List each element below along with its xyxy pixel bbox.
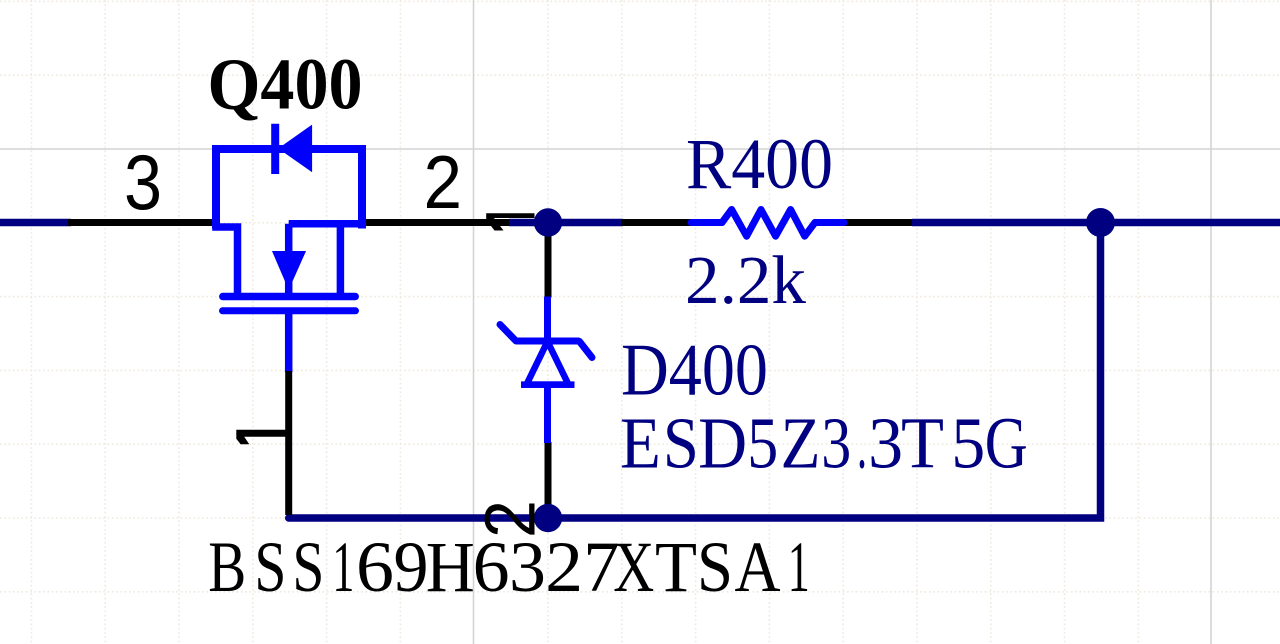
svg-text:1: 1	[788, 527, 810, 607]
svg-text:6: 6	[473, 527, 510, 607]
anode triangle outline	[527, 342, 569, 385]
svg-text:.: .	[857, 403, 867, 484]
diode D400 pin 1 wire	[545, 223, 552, 298]
svg-text:T: T	[655, 527, 697, 607]
svg-text:9: 9	[394, 527, 429, 607]
svg-text:D400: D400	[621, 330, 768, 412]
pin 1 wire of Q400 (gate)	[285, 371, 292, 515]
gate lead	[285, 313, 293, 372]
svg-text:G: G	[985, 403, 1028, 484]
zigzag	[722, 210, 815, 237]
transistor Q400 (depletion MOSFET with body diode)	[216, 124, 362, 372]
junction node dot (R400/D400 top)	[534, 208, 562, 236]
svg-text:S: S	[663, 403, 699, 484]
body diode cathode bar	[271, 124, 279, 174]
top lead	[544, 297, 551, 340]
body diode triangle	[280, 127, 311, 171]
svg-text:X: X	[613, 527, 654, 607]
left lead	[691, 219, 722, 226]
svg-text:Q400: Q400	[208, 43, 363, 124]
wire right vertical branch and bottom horizontal	[289, 223, 1101, 519]
svg-text:6: 6	[356, 527, 394, 607]
svg-text:A: A	[735, 527, 781, 607]
left wing	[500, 325, 516, 342]
source jog	[216, 223, 238, 297]
wire net middle horizontal	[509, 219, 623, 227]
pin 3 wire of Q400	[68, 219, 214, 226]
bottom lead	[544, 385, 551, 443]
body diode loop	[216, 149, 362, 229]
svg-text:3: 3	[124, 140, 162, 226]
svg-text:5: 5	[951, 403, 985, 484]
svg-text:2: 2	[545, 527, 583, 607]
svg-text:T: T	[901, 403, 944, 484]
junction node dot (D400 bottom)	[534, 504, 562, 532]
svg-text:H: H	[426, 527, 475, 607]
resistor R400 symbol	[691, 210, 844, 237]
svg-text:2: 2	[424, 140, 463, 224]
triangle base bar	[521, 381, 575, 388]
svg-text:3: 3	[868, 403, 903, 484]
svg-text:S: S	[697, 527, 733, 607]
channel bar	[223, 293, 355, 301]
right vertical	[337, 224, 345, 297]
wire net left horizontal	[0, 219, 71, 227]
pin number 1 of D400 (rotated)	[486, 213, 534, 230]
zener diode D400 symbol	[500, 297, 592, 444]
svg-text:S: S	[254, 527, 286, 607]
pin number 1 (gate, rotated)	[236, 430, 286, 445]
svg-text:S: S	[292, 527, 324, 607]
svg-text:5: 5	[747, 403, 778, 484]
drain vertical with arrow	[285, 224, 293, 297]
resistor R400 pin 2 wire	[843, 219, 914, 226]
junction node dot (right branch)	[1086, 208, 1115, 237]
svg-text:1: 1	[332, 527, 354, 607]
cathode bar	[516, 338, 580, 345]
svg-text:3: 3	[509, 527, 546, 607]
svg-text:2: 2	[472, 500, 551, 538]
wire net right horizontal	[912, 219, 1280, 227]
drain-level horizontal	[289, 220, 362, 228]
svg-text:B: B	[208, 527, 246, 607]
diode D400 pin 2 wire	[545, 442, 552, 518]
pin 2 wire of Q400	[361, 219, 511, 226]
right lead	[815, 219, 844, 226]
svg-text:D: D	[698, 403, 747, 484]
svg-text:2.2k: 2.2k	[685, 242, 807, 318]
svg-text:R400: R400	[686, 123, 833, 204]
resistor R400 pin 1 wire	[621, 219, 692, 226]
svg-text:Z: Z	[781, 403, 821, 484]
svg-text:3: 3	[821, 403, 851, 484]
arrow head	[274, 252, 305, 288]
right wing	[580, 342, 593, 358]
gate bar	[223, 307, 356, 314]
svg-text:E: E	[620, 403, 661, 484]
